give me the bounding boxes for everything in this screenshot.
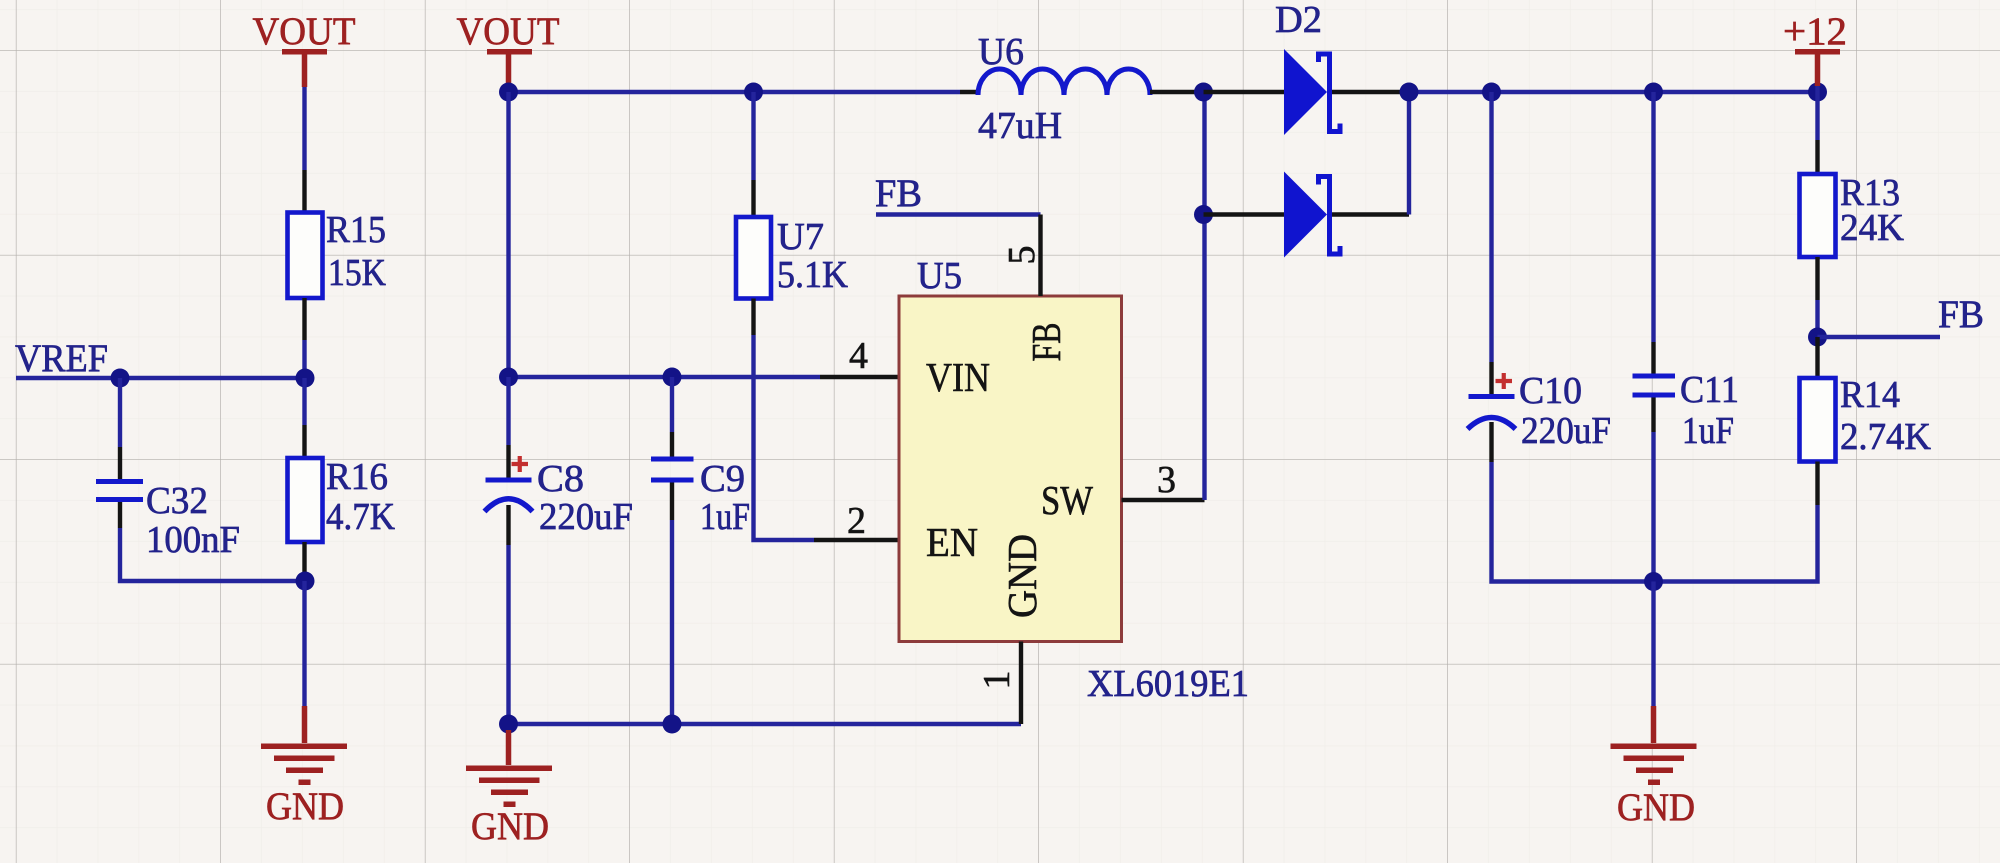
pin R16 bottom <box>302 542 306 581</box>
junction GND rail right <box>1644 572 1663 591</box>
svg-text:C10: C10 <box>1519 370 1582 412</box>
svg-text:R14: R14 <box>1840 374 1900 416</box>
resistor R13 <box>1800 174 1836 257</box>
junction R15/R16/VREF <box>296 369 315 388</box>
svg-text:D2: D2 <box>1275 0 1322 41</box>
svg-text:220uF: 220uF <box>539 496 633 538</box>
power port VOUT middle <box>457 10 560 84</box>
pin R15 top <box>302 170 306 212</box>
wire C11 top lead <box>1651 92 1655 342</box>
capacitor C8 polarized <box>485 456 533 512</box>
svg-text:VOUT: VOUT <box>457 10 560 53</box>
resistor R15 <box>288 213 323 299</box>
pin C32 bottom <box>118 502 122 528</box>
svg-text:1uF: 1uF <box>1682 410 1734 452</box>
svg-text:15K: 15K <box>328 252 386 294</box>
svg-text:VREF: VREF <box>15 337 108 380</box>
svg-text:24K: 24K <box>1840 207 1905 249</box>
resistor R14 <box>1800 378 1836 462</box>
junction C8/VIN <box>499 368 518 387</box>
wire R14 to GND rail <box>1654 505 1818 582</box>
capacitor C32 <box>96 479 143 502</box>
capacitor C10 polarized <box>1468 373 1516 429</box>
pin C11 top <box>1651 342 1655 374</box>
pin 5 FB lead <box>1038 215 1042 297</box>
pin U7 bottom <box>751 299 755 336</box>
pin R15 bottom <box>302 298 306 340</box>
svg-text:U7: U7 <box>777 216 824 258</box>
pin C9 top <box>670 432 674 457</box>
pin 4 VIN lead <box>820 375 899 379</box>
pin C8 top <box>506 445 510 478</box>
svg-text:GND: GND <box>999 534 1045 618</box>
pin 3 SW lead <box>1122 498 1205 502</box>
svg-text:R15: R15 <box>326 209 386 251</box>
power port VOUT left <box>253 10 356 87</box>
junction inductor/diode/SW <box>1194 83 1213 102</box>
wire VIN horizontal <box>509 375 821 379</box>
pin R16 top <box>302 425 306 458</box>
junction SW/diode2 <box>1194 205 1213 224</box>
power port +12 <box>1783 10 1847 86</box>
svg-text:SW: SW <box>1041 477 1093 523</box>
pin C9 bottom <box>670 483 674 521</box>
svg-text:U6: U6 <box>978 31 1024 73</box>
pin R13 top <box>1815 140 1819 174</box>
pin U7 top <box>751 180 755 217</box>
svg-text:FB: FB <box>875 172 922 215</box>
wire U7 to EN <box>754 335 815 540</box>
wire to GND right <box>1651 582 1655 707</box>
wire diode2 up to rail <box>1407 92 1411 215</box>
svg-text:VOUT: VOUT <box>253 10 356 53</box>
svg-text:+12: +12 <box>1783 10 1847 53</box>
svg-text:2.74K: 2.74K <box>1840 416 1932 458</box>
wire top rail left <box>509 90 961 94</box>
svg-text:5: 5 <box>1001 246 1043 265</box>
wire C11 to GND rail <box>1651 432 1655 582</box>
junction VOUT rail <box>499 83 518 102</box>
svg-text:U5: U5 <box>917 255 962 297</box>
junction C8/GND rail <box>499 715 518 734</box>
wire SW up to diodes <box>1202 92 1206 500</box>
wire +12 stub <box>1815 86 1819 140</box>
svg-text:VIN: VIN <box>926 354 990 400</box>
wire C32 top lead <box>118 378 122 447</box>
junction C11/rail <box>1644 83 1663 102</box>
svg-text:C11: C11 <box>1680 369 1739 411</box>
svg-text:100nF: 100nF <box>146 519 240 561</box>
svg-text:4.7K: 4.7K <box>326 496 396 538</box>
ground GND left <box>261 706 347 828</box>
wire C32 bottom lead <box>120 528 305 581</box>
junction R13/rail <box>1808 83 1827 102</box>
pin 1 GND lead <box>1019 642 1023 725</box>
svg-text:C9: C9 <box>700 458 745 500</box>
wire C10 to GND rail <box>1492 462 1654 582</box>
wire C9 top lead <box>670 377 674 432</box>
svg-text:4: 4 <box>849 335 868 377</box>
wire top rail right <box>1409 90 1818 94</box>
svg-text:GND: GND <box>471 805 549 848</box>
svg-text:FB: FB <box>1023 323 1069 362</box>
svg-text:EN: EN <box>926 519 978 565</box>
resistor U7 <box>736 217 771 299</box>
svg-text:XL6019E1: XL6019E1 <box>1087 663 1249 705</box>
junction diode/rail <box>1400 83 1419 102</box>
pin R13 bottom <box>1815 257 1819 300</box>
ground GND middle <box>466 730 552 848</box>
svg-text:3: 3 <box>1157 459 1176 501</box>
junction C9/GND rail <box>663 715 682 734</box>
pin R14 bottom <box>1815 462 1819 506</box>
wire C10 top lead <box>1489 92 1493 362</box>
pin C11 bottom <box>1651 398 1655 433</box>
svg-text:C32: C32 <box>146 480 208 522</box>
diode D2 lower <box>1204 172 1410 258</box>
junction VREF/C32 <box>111 369 130 388</box>
wire C8 to GND rail <box>506 545 510 724</box>
svg-text:FB: FB <box>1938 293 1984 336</box>
wire VREF horizontal <box>16 376 305 380</box>
svg-text:47uH: 47uH <box>978 105 1062 147</box>
wire R15 to VREF <box>302 340 306 378</box>
wire C9 to GND rail <box>670 520 674 724</box>
wire C8 top lead <box>506 377 510 445</box>
wire VREF to R16 <box>302 378 306 425</box>
svg-text:1: 1 <box>976 671 1018 690</box>
svg-text:C8: C8 <box>537 458 584 500</box>
junction R16/C32 <box>296 572 315 591</box>
ground GND right <box>1611 706 1697 829</box>
op-amp U5 body <box>899 296 1122 642</box>
svg-text:2: 2 <box>847 500 866 542</box>
svg-text:220uF: 220uF <box>1521 410 1611 452</box>
inductor U6 <box>960 69 1203 95</box>
wire FB <box>876 212 1041 216</box>
wire VOUT to R15 <box>302 87 306 170</box>
pin C10 bottom <box>1489 422 1493 462</box>
pin R14 top <box>1815 337 1819 378</box>
junction FB divider <box>1808 328 1827 347</box>
junction U7 rail <box>744 83 763 102</box>
wire R13 to FB <box>1815 300 1819 337</box>
resistor R16 <box>288 458 323 542</box>
capacitor C11 <box>1633 374 1676 398</box>
wire FB right <box>1818 335 1941 339</box>
pin C8 bottom <box>506 505 510 545</box>
wire rail to U7 <box>751 92 755 180</box>
svg-text:GND: GND <box>1617 786 1695 829</box>
junction C10/rail <box>1482 83 1501 102</box>
pin C10 top <box>1489 362 1493 396</box>
wire VOUT stub <box>506 84 510 92</box>
wire R16 to GND <box>302 581 306 706</box>
pin C32 top <box>118 447 122 479</box>
wire VOUT down to VIN <box>506 92 510 377</box>
wire GND rail <box>509 722 1022 726</box>
capacitor C9 <box>651 457 694 483</box>
svg-text:GND: GND <box>266 785 344 828</box>
diode D2 upper <box>1204 49 1410 135</box>
svg-text:R16: R16 <box>326 456 388 498</box>
svg-text:1uF: 1uF <box>700 496 750 538</box>
pin 2 EN lead <box>814 538 899 542</box>
svg-text:5.1K: 5.1K <box>777 254 849 296</box>
junction C9/VIN <box>663 368 682 387</box>
